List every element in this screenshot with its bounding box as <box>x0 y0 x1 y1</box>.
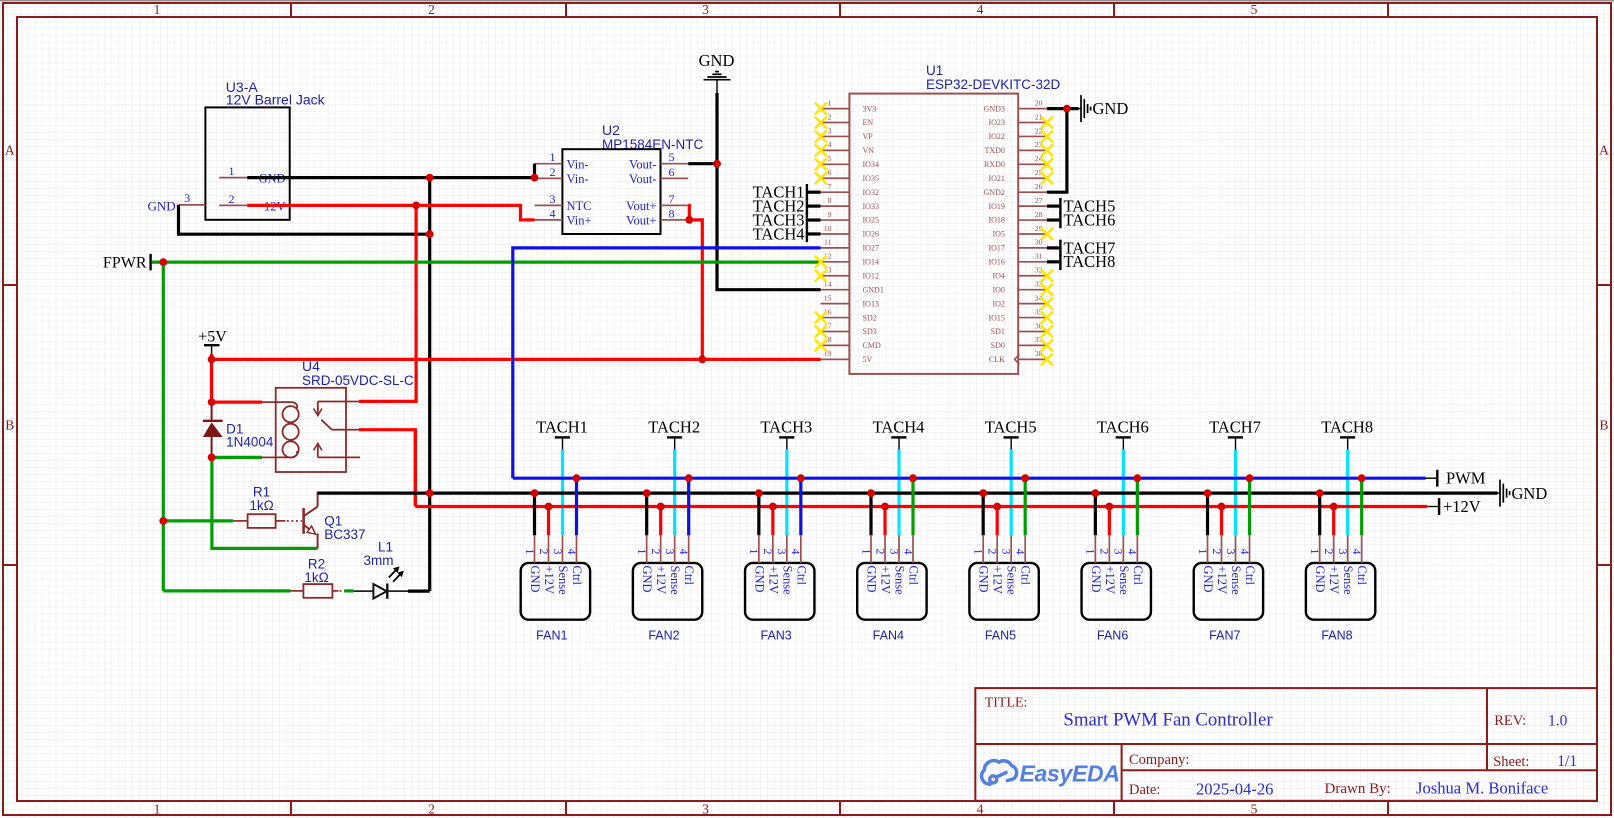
wire TACH7 sense (cyan) <box>1234 450 1237 536</box>
junction FAN1 GND <box>531 489 539 497</box>
U1 pin 26 GND2 <box>1018 191 1047 193</box>
svg-text:4: 4 <box>1350 549 1364 555</box>
svg-text:8: 8 <box>669 206 675 220</box>
U1 pin 24 RXD0 <box>1018 163 1047 165</box>
U1 pin 34 IO2 <box>1018 303 1047 305</box>
svg-text:IO4: IO4 <box>992 271 1004 280</box>
svg-text:31: 31 <box>1035 252 1043 261</box>
junction <box>713 160 721 168</box>
net port TACH1 <box>536 418 588 450</box>
svg-text:8: 8 <box>828 196 832 205</box>
net port TACH2 at U1 <box>753 197 821 216</box>
svg-text:+12V: +12V <box>991 566 1005 595</box>
svg-text:GND: GND <box>752 566 766 593</box>
U1 pin 29 IO5 <box>1018 233 1047 235</box>
svg-text:1: 1 <box>828 98 832 107</box>
connector FAN2 <box>633 535 702 642</box>
svg-text:TACH5: TACH5 <box>985 418 1037 437</box>
svg-text:Drawn By:: Drawn By: <box>1325 781 1391 797</box>
connector U3-A 12V Barrel Jack <box>179 79 326 220</box>
svg-text:GND: GND <box>1089 566 1103 593</box>
svg-text:+12V: +12V <box>1443 497 1481 516</box>
junction FAN6 GND <box>1091 489 1099 497</box>
svg-text:FAN8: FAN8 <box>1321 629 1352 643</box>
svg-text:U2: U2 <box>602 122 620 138</box>
wire GND: U2 pin1 branch <box>533 164 536 178</box>
junction FAN1 Ctrl <box>573 474 581 482</box>
junction FAN2 GND <box>643 489 651 497</box>
U1 pin 31 IO16 <box>1018 261 1047 263</box>
svg-text:1: 1 <box>523 549 537 555</box>
connector FAN5 <box>969 535 1038 642</box>
wire FAN7 Ctrl drop <box>1248 478 1251 535</box>
svg-text:U4: U4 <box>302 358 320 374</box>
svg-text:Sense: Sense <box>893 566 907 596</box>
junction FAN8 GND <box>1316 489 1324 497</box>
junction <box>208 454 216 462</box>
net port TACH5 at U1 <box>1047 197 1115 216</box>
svg-text:+12V: +12V <box>879 566 893 595</box>
junction <box>426 174 434 182</box>
wire FAN6 Ctrl drop <box>1136 478 1139 535</box>
transistor Q1 BC337 <box>304 492 366 549</box>
svg-text:2: 2 <box>1098 549 1112 555</box>
svg-text:ESP32-DEVKITC-32D: ESP32-DEVKITC-32D <box>926 77 1061 92</box>
svg-text:FAN5: FAN5 <box>985 629 1016 643</box>
svg-text:Company:: Company: <box>1129 752 1189 768</box>
svg-text:1: 1 <box>550 150 556 164</box>
svg-text:2025-04-26: 2025-04-26 <box>1196 780 1273 799</box>
svg-text:TACH6: TACH6 <box>1064 210 1116 229</box>
svg-text:5: 5 <box>828 154 832 163</box>
svg-text:U1: U1 <box>926 63 943 78</box>
svg-text:TACH1: TACH1 <box>536 418 588 437</box>
U1 pin 27 IO19 <box>1018 205 1047 207</box>
svg-text:2: 2 <box>1322 549 1336 555</box>
svg-text:1: 1 <box>229 164 235 178</box>
ground GND (top, U2/U1 net) <box>699 51 735 93</box>
svg-text:VN: VN <box>863 146 875 155</box>
resistor R2 1k <box>291 557 346 598</box>
svg-text:+12V: +12V <box>1327 566 1341 595</box>
connector FAN1 <box>521 535 590 642</box>
svg-text:Ctrl: Ctrl <box>794 566 808 586</box>
wire TACH5 sense (cyan) <box>1010 450 1013 536</box>
wire red +12V vertical from relay corner <box>414 430 417 507</box>
svg-text:2: 2 <box>428 2 435 17</box>
U1 pin 28 IO18 <box>1018 219 1047 221</box>
no-connect X pin 33 <box>1041 284 1053 296</box>
U1 CLK clock-input mark <box>1015 354 1020 364</box>
svg-text:IO21: IO21 <box>988 174 1004 183</box>
svg-text:B: B <box>1599 418 1608 433</box>
svg-text:4: 4 <box>677 549 691 555</box>
svg-text:10: 10 <box>824 224 832 233</box>
junction <box>531 174 539 182</box>
no-connect X pin 36 <box>1041 325 1053 337</box>
junction FAN5 Ctrl <box>1021 474 1029 482</box>
svg-text:7: 7 <box>669 192 675 206</box>
svg-text:3: 3 <box>663 549 677 555</box>
svg-text:5V: 5V <box>863 355 873 364</box>
wire TACH8 sense (cyan) <box>1346 450 1349 536</box>
U1 pin 10 IO26 <box>821 233 850 235</box>
U1 pin 8 IO33 <box>821 205 850 207</box>
svg-text:+5V: +5V <box>198 329 227 346</box>
junction FAN8 Ctrl <box>1358 474 1366 482</box>
svg-text:GND: GND <box>1201 566 1215 593</box>
wire FAN8 GND drop <box>1318 493 1321 535</box>
wire FAN8 Ctrl drop <box>1360 478 1363 535</box>
svg-text:Ctrl: Ctrl <box>1243 566 1257 586</box>
svg-text:2: 2 <box>537 549 551 555</box>
svg-text:4: 4 <box>789 549 803 555</box>
wire coil pin2 / D1 anode (green) <box>212 456 262 459</box>
wire PWM bus <box>513 477 1426 480</box>
wire +5V down to relay coil / D1 <box>210 354 213 402</box>
svg-text:1kΩ: 1kΩ <box>304 570 328 585</box>
no-connect X pin 23 <box>1041 144 1053 156</box>
wire FAN5 GND drop <box>982 493 985 535</box>
svg-text:TACH4: TACH4 <box>873 418 925 437</box>
svg-text:FAN4: FAN4 <box>873 629 904 643</box>
svg-text:3: 3 <box>1224 549 1238 555</box>
no-connect X pin 6 <box>815 172 827 184</box>
net port TACH1 at U1 <box>753 183 821 202</box>
svg-text:3: 3 <box>702 2 709 17</box>
svg-text:4: 4 <box>565 549 579 555</box>
svg-text:Sense: Sense <box>1341 566 1355 596</box>
svg-text:4: 4 <box>977 802 984 817</box>
svg-text:2: 2 <box>550 165 556 179</box>
svg-text:FAN2: FAN2 <box>648 629 679 643</box>
svg-text:27: 27 <box>1035 196 1043 205</box>
svg-text:RXD0: RXD0 <box>984 160 1005 169</box>
U1 pin 23 TXD0 <box>1018 149 1047 151</box>
U1 pin 18 CMD <box>821 344 850 346</box>
svg-text:IO16: IO16 <box>988 258 1004 267</box>
svg-text:2: 2 <box>649 549 663 555</box>
svg-text:GND: GND <box>865 566 879 593</box>
svg-text:1: 1 <box>635 549 649 555</box>
junction FAN1 +12V <box>545 503 553 511</box>
svg-text:FAN1: FAN1 <box>536 629 567 643</box>
svg-text:Sense: Sense <box>556 566 570 596</box>
no-connect X pin 29 <box>1041 228 1053 240</box>
no-connect X pin 1 <box>815 103 827 115</box>
svg-text:REV:: REV: <box>1494 713 1526 729</box>
svg-text:4: 4 <box>550 206 556 220</box>
svg-text:IO22: IO22 <box>988 132 1004 141</box>
U1 pin 20 GND3 <box>1018 108 1047 110</box>
net port TACH2 <box>648 418 700 450</box>
svg-text:Ctrl: Ctrl <box>682 566 696 586</box>
svg-text:6: 6 <box>669 165 675 179</box>
svg-text:7: 7 <box>828 182 832 191</box>
svg-text:1.0: 1.0 <box>1548 713 1568 730</box>
wire GND3/GND2 tie <box>1047 109 1067 193</box>
svg-text:TACH7: TACH7 <box>1209 418 1261 437</box>
svg-text:28: 28 <box>1035 210 1043 219</box>
U1 pin 14 GND1 <box>821 289 850 291</box>
junction FAN5 +12V <box>993 503 1001 511</box>
junction FAN2 Ctrl <box>685 474 693 482</box>
svg-text:Vout+: Vout+ <box>626 214 656 228</box>
net port TACH5 <box>985 418 1037 450</box>
no-connect X pin 2 <box>815 117 827 129</box>
resistor R1 1k <box>233 485 302 528</box>
svg-text:1: 1 <box>1196 549 1210 555</box>
svg-text:SRD-05VDC-SL-C: SRD-05VDC-SL-C <box>302 373 414 388</box>
svg-text:9: 9 <box>828 210 832 219</box>
svg-text:12V Barrel Jack: 12V Barrel Jack <box>226 92 326 108</box>
net port TACH3 <box>760 418 812 450</box>
svg-text:2: 2 <box>229 192 235 206</box>
svg-text:IO33: IO33 <box>863 202 879 211</box>
U1 pin 30 IO17 <box>1018 247 1047 249</box>
svg-text:Vout-: Vout- <box>629 172 657 186</box>
svg-text:Sense: Sense <box>1005 566 1019 596</box>
wire FAN3 GND drop <box>757 493 760 535</box>
svg-text:GND: GND <box>977 566 991 593</box>
svg-text:20: 20 <box>1035 98 1043 107</box>
U1 pin 11 IO27 <box>821 247 850 249</box>
svg-text:IO25: IO25 <box>863 216 879 225</box>
wire FAN2 Ctrl drop <box>687 478 690 535</box>
svg-text:GND: GND <box>1512 484 1548 503</box>
svg-text:4: 4 <box>901 549 915 555</box>
U1 pin 16 SD2 <box>821 317 850 319</box>
wire 12V branch down to relay NO contact <box>359 205 416 401</box>
svg-text:1: 1 <box>1084 549 1098 555</box>
net port TACH7 <box>1209 418 1261 450</box>
U1 pin 38 CLK <box>1018 358 1047 360</box>
svg-text:Sense: Sense <box>1117 566 1131 596</box>
svg-text:Sheet:: Sheet: <box>1493 754 1529 770</box>
wire FAN6 +12V drop <box>1108 507 1111 536</box>
svg-text:5: 5 <box>1251 2 1258 17</box>
svg-text:TACH6: TACH6 <box>1097 418 1149 437</box>
wire FPWR net to R2 <box>163 589 290 592</box>
wire FAN6 GND drop <box>1094 493 1097 535</box>
U1 pin 32 IO4 <box>1018 275 1047 277</box>
svg-text:TITLE:: TITLE: <box>985 696 1028 711</box>
svg-text:1: 1 <box>971 549 985 555</box>
wire FAN3 +12V drop <box>771 507 774 536</box>
net port TACH3 at U1 <box>753 210 821 229</box>
wire relay coil pin1 <box>212 401 262 404</box>
U1 pin 9 IO25 <box>821 219 850 221</box>
svg-text:IO0: IO0 <box>992 285 1004 294</box>
junction <box>208 356 216 364</box>
wire GND: U3 pin3 down and right <box>179 205 430 234</box>
U1 pin 21 IO23 <box>1018 122 1047 124</box>
junction FAN7 Ctrl <box>1246 474 1254 482</box>
junction FAN8 +12V <box>1330 503 1338 511</box>
ground GND at bus end <box>1498 480 1548 507</box>
svg-text:FAN7: FAN7 <box>1209 629 1240 643</box>
svg-text:3: 3 <box>775 549 789 555</box>
junction <box>1063 105 1071 113</box>
EasyEDA logo <box>982 761 1017 785</box>
no-connect X pin 12 <box>815 256 827 268</box>
svg-text:3V3: 3V3 <box>863 104 877 113</box>
junction FAN6 Ctrl <box>1133 474 1141 482</box>
wire FAN1 Ctrl drop <box>575 478 578 535</box>
no-connect X pin 3 <box>815 130 827 142</box>
svg-text:IO32: IO32 <box>863 188 879 197</box>
title block <box>975 688 1597 801</box>
svg-text:GND1: GND1 <box>863 285 884 294</box>
svg-text:GND2: GND2 <box>984 188 1005 197</box>
diode D1 1N4004 <box>203 402 274 457</box>
U1 pin 33 IO0 <box>1018 289 1047 291</box>
no-connect X pin 18 <box>815 339 827 351</box>
junction FAN4 +12V <box>881 503 889 511</box>
junction FAN7 +12V <box>1218 503 1226 511</box>
svg-text:+12V: +12V <box>542 566 556 595</box>
svg-text:2: 2 <box>828 112 832 121</box>
no-connect X pin 25 <box>1041 172 1053 184</box>
wire FPWR vertical branch <box>162 262 165 591</box>
svg-text:Sense: Sense <box>668 566 682 596</box>
svg-text:EasyEDA: EasyEDA <box>1020 761 1120 787</box>
svg-text:IO15: IO15 <box>988 313 1004 322</box>
power port +5V <box>198 329 227 355</box>
no-connect X pin 5 <box>815 158 827 170</box>
no-connect X pin 37 <box>1041 339 1053 351</box>
svg-text:3: 3 <box>999 549 1013 555</box>
svg-text:Ctrl: Ctrl <box>1019 566 1033 586</box>
wire FAN7 +12V drop <box>1220 507 1223 536</box>
svg-text:5: 5 <box>1251 802 1258 817</box>
svg-text:3: 3 <box>1336 549 1350 555</box>
svg-text:IO34: IO34 <box>863 160 879 169</box>
svg-text:4: 4 <box>1126 549 1140 555</box>
svg-text:IO14: IO14 <box>863 258 879 267</box>
svg-text:2: 2 <box>873 549 887 555</box>
svg-text:15: 15 <box>824 293 832 302</box>
svg-text:3: 3 <box>828 126 832 135</box>
svg-text:VP: VP <box>863 132 874 141</box>
svg-text:3: 3 <box>551 549 565 555</box>
U1 pin 35 IO15 <box>1018 317 1047 319</box>
svg-text:6: 6 <box>828 168 832 177</box>
svg-text:TACH4: TACH4 <box>753 224 805 243</box>
junction FAN7 GND <box>1204 489 1212 497</box>
svg-text:Vout+: Vout+ <box>626 199 656 213</box>
svg-text:GND: GND <box>1313 566 1327 593</box>
svg-text:IO13: IO13 <box>863 299 879 308</box>
wire FAN4 Ctrl drop <box>911 478 914 535</box>
connector FAN7 <box>1194 535 1263 642</box>
svg-text:A: A <box>5 143 15 158</box>
svg-text:1: 1 <box>859 549 873 555</box>
wire +5V: U2 Vout+ pins tie <box>688 205 689 220</box>
svg-text:Vin-: Vin- <box>567 157 589 171</box>
ground GND at U1 pin20 <box>1079 95 1129 122</box>
svg-text:IO17: IO17 <box>988 244 1004 253</box>
svg-text:Sense: Sense <box>780 566 794 596</box>
wire FAN8 +12V drop <box>1332 507 1335 536</box>
relay U4 SRD-05VDC-SL-C <box>262 358 414 472</box>
U1 pin 7 IO32 <box>821 191 850 193</box>
svg-text:Ctrl: Ctrl <box>907 566 921 586</box>
svg-text:NTC: NTC <box>567 199 592 213</box>
svg-text:Ctrl: Ctrl <box>570 566 584 586</box>
svg-text:1: 1 <box>154 2 161 17</box>
U1 pin 12 IO14 <box>821 261 850 263</box>
svg-text:Ctrl: Ctrl <box>1131 566 1145 586</box>
connector FAN8 <box>1306 535 1375 642</box>
no-connect X pin 38 <box>1041 353 1053 365</box>
net port TACH4 at U1 <box>753 224 821 243</box>
junction FAN3 +12V <box>769 503 777 511</box>
LED L1 3mm <box>354 540 408 599</box>
junction <box>412 202 420 210</box>
svg-text:4: 4 <box>1238 549 1252 555</box>
IC U1 ESP32-DEVKITC-32D <box>821 63 1061 374</box>
no-connect X pin 34 <box>1041 298 1053 310</box>
svg-text:FAN3: FAN3 <box>761 629 792 643</box>
connector FAN3 <box>745 535 814 642</box>
svg-text:1kΩ: 1kΩ <box>249 498 273 513</box>
svg-text:IO35: IO35 <box>863 174 879 183</box>
wire +5V rail to U1 5V pin <box>212 358 821 361</box>
connector FAN4 <box>857 535 926 642</box>
wire PWM: U1 IO27 to bus <box>513 248 821 478</box>
U1 pin 1 3V3 <box>821 108 850 110</box>
U1 pin 13 IO12 <box>821 275 850 277</box>
wire FAN2 GND drop <box>645 493 648 535</box>
U1 pin 25 IO21 <box>1018 177 1047 179</box>
svg-text:SD2: SD2 <box>863 313 877 322</box>
net port TACH6 <box>1097 418 1149 450</box>
svg-text:GND3: GND3 <box>984 104 1005 113</box>
svg-text:+12V: +12V <box>1103 566 1117 595</box>
junction <box>208 398 216 406</box>
svg-text:TACH8: TACH8 <box>1321 418 1373 437</box>
junction <box>698 356 706 364</box>
svg-text:IO23: IO23 <box>988 118 1004 127</box>
no-connect X pin 13 <box>815 270 827 282</box>
svg-text:B: B <box>5 418 14 433</box>
wire relay common to +12V bus corner <box>359 430 416 507</box>
svg-text:5: 5 <box>669 150 675 164</box>
wire L1 cathode to GND trunk <box>408 589 430 592</box>
svg-text:+12V: +12V <box>654 566 668 595</box>
svg-text:Sense: Sense <box>1229 566 1243 596</box>
svg-text:IO18: IO18 <box>988 216 1004 225</box>
svg-text:Vout-: Vout- <box>629 157 657 171</box>
U1 pin 3 VP <box>821 135 850 137</box>
net port FPWR <box>103 254 151 272</box>
wire D1 anode down to Q1 emitter <box>212 457 318 548</box>
svg-text:3: 3 <box>1112 549 1126 555</box>
junction <box>159 517 167 525</box>
svg-text:IO5: IO5 <box>992 230 1004 239</box>
net port TACH8 at U1 <box>1047 252 1115 271</box>
svg-text:SD3: SD3 <box>863 327 877 336</box>
svg-text:3: 3 <box>550 192 556 206</box>
wire +12V bus <box>415 505 1427 508</box>
svg-text:GND: GND <box>528 566 542 593</box>
svg-text:TXD0: TXD0 <box>984 146 1004 155</box>
svg-text:3: 3 <box>887 549 901 555</box>
U1 pin 2 EN <box>821 122 850 124</box>
junction FAN4 Ctrl <box>909 474 917 482</box>
wire FAN3 Ctrl drop <box>799 478 802 535</box>
